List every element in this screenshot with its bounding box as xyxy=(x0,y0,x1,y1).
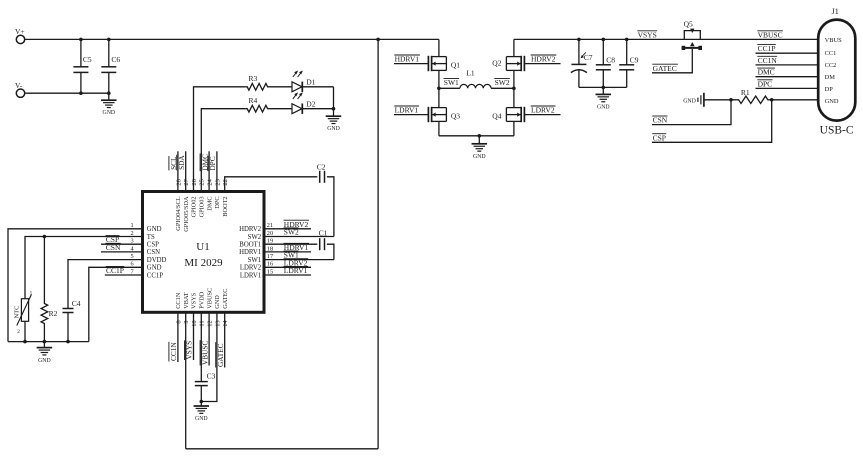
svg-text:VBUS: VBUS xyxy=(825,37,842,44)
svg-text:GND: GND xyxy=(825,98,839,105)
svg-text:SW1: SW1 xyxy=(444,78,459,87)
svg-text:26: 26 xyxy=(191,179,198,185)
svg-text:2: 2 xyxy=(130,230,133,237)
svg-text:C4: C4 xyxy=(72,299,81,308)
svg-text:20: 20 xyxy=(267,230,273,237)
svg-text:9: 9 xyxy=(183,320,190,323)
svg-text:V+: V+ xyxy=(15,27,25,36)
svg-text:U1: U1 xyxy=(196,241,209,253)
svg-text:10: 10 xyxy=(191,320,198,326)
svg-text:11: 11 xyxy=(199,320,206,326)
svg-text:SW1: SW1 xyxy=(284,251,299,260)
svg-text:V-: V- xyxy=(15,81,23,90)
svg-text:DMC: DMC xyxy=(206,196,213,210)
svg-text:DPC: DPC xyxy=(214,196,221,208)
svg-text:CC1N: CC1N xyxy=(758,56,778,65)
svg-text:21: 21 xyxy=(267,222,273,229)
svg-text:SW1: SW1 xyxy=(248,257,262,264)
svg-text:CSN: CSN xyxy=(106,243,121,252)
svg-text:CC1P: CC1P xyxy=(106,266,124,275)
svg-text:C6: C6 xyxy=(111,55,120,64)
svg-text:28: 28 xyxy=(175,179,182,185)
svg-text:LDRV1: LDRV1 xyxy=(284,266,308,275)
svg-text:HDRV2: HDRV2 xyxy=(531,55,556,64)
svg-text:GND: GND xyxy=(195,416,208,422)
svg-text:VBUSC: VBUSC xyxy=(200,341,209,365)
svg-text:GND: GND xyxy=(683,98,696,104)
svg-text:CSP: CSP xyxy=(653,133,666,142)
svg-text:12: 12 xyxy=(207,320,214,326)
svg-text:GPIO02: GPIO02 xyxy=(191,196,198,217)
svg-text:14: 14 xyxy=(222,320,229,327)
svg-text:1: 1 xyxy=(130,222,133,229)
svg-text:SDA: SDA xyxy=(177,155,186,170)
svg-text:CSP: CSP xyxy=(147,242,159,249)
svg-text:VBAT: VBAT xyxy=(183,292,190,309)
svg-text:GPIO03: GPIO03 xyxy=(199,196,206,217)
svg-text:CC2: CC2 xyxy=(825,62,837,69)
svg-text:GPIO05/SDA: GPIO05/SDA xyxy=(183,196,190,232)
svg-text:8: 8 xyxy=(175,320,182,323)
svg-text:SW2: SW2 xyxy=(284,228,299,237)
svg-text:2: 2 xyxy=(17,329,20,335)
svg-text:R3: R3 xyxy=(249,74,258,83)
svg-text:GND: GND xyxy=(147,265,162,272)
svg-text:BOOT2: BOOT2 xyxy=(222,196,229,216)
svg-text:R4: R4 xyxy=(249,96,258,105)
svg-text:VBUSC: VBUSC xyxy=(758,30,783,39)
svg-text:USB-C: USB-C xyxy=(820,125,854,137)
svg-text:LDRV1: LDRV1 xyxy=(240,272,261,279)
svg-text:CSN: CSN xyxy=(653,116,668,125)
svg-text:DM: DM xyxy=(825,74,836,81)
svg-text:SW2: SW2 xyxy=(248,234,262,241)
svg-text:GND: GND xyxy=(597,104,610,110)
svg-text:22: 22 xyxy=(222,179,229,185)
svg-text:C3: C3 xyxy=(207,372,216,381)
svg-text:SW2: SW2 xyxy=(495,78,510,87)
svg-text:MI 2029: MI 2029 xyxy=(184,257,223,269)
svg-text:Q3: Q3 xyxy=(451,111,460,120)
svg-text:1: 1 xyxy=(30,291,33,297)
svg-text:25: 25 xyxy=(199,179,206,185)
svg-text:23: 23 xyxy=(214,179,221,185)
svg-text:D1: D1 xyxy=(306,78,315,87)
svg-text:C1: C1 xyxy=(319,228,328,237)
svg-text:DMC: DMC xyxy=(758,68,775,77)
svg-text:NTC: NTC xyxy=(13,306,20,319)
svg-text:R1: R1 xyxy=(741,88,750,97)
svg-text:C8: C8 xyxy=(606,55,615,64)
svg-text:DP: DP xyxy=(825,86,834,93)
svg-text:PVDD: PVDD xyxy=(199,291,206,309)
svg-text:Q4: Q4 xyxy=(492,111,501,120)
svg-text:C9: C9 xyxy=(630,55,639,64)
svg-text:J1: J1 xyxy=(832,7,839,16)
svg-text:DPC: DPC xyxy=(208,156,217,170)
svg-text:DPC: DPC xyxy=(758,79,773,88)
svg-text:13: 13 xyxy=(214,320,221,326)
svg-text:CC1N: CC1N xyxy=(169,342,178,361)
svg-text:VSYS: VSYS xyxy=(185,341,194,360)
svg-text:GND: GND xyxy=(327,126,340,132)
svg-text:TS: TS xyxy=(147,234,155,241)
svg-text:LDRV2: LDRV2 xyxy=(240,265,262,272)
svg-text:VSYS: VSYS xyxy=(638,30,657,39)
svg-text:LDRV1: LDRV1 xyxy=(395,106,419,115)
svg-text:C2: C2 xyxy=(317,163,326,172)
svg-text:D2: D2 xyxy=(306,100,315,109)
svg-text:CC1P: CC1P xyxy=(758,44,776,53)
svg-text:L1: L1 xyxy=(466,68,475,77)
svg-text:Q5: Q5 xyxy=(684,19,693,28)
svg-text:C7: C7 xyxy=(584,53,593,62)
svg-text:GND: GND xyxy=(473,154,486,160)
svg-text:GATEC: GATEC xyxy=(653,64,677,73)
svg-text:27: 27 xyxy=(183,178,190,185)
svg-text:C5: C5 xyxy=(83,55,92,64)
svg-text:VSYS: VSYS xyxy=(191,292,198,309)
svg-text:GND: GND xyxy=(214,295,221,309)
svg-text:VBUSC: VBUSC xyxy=(206,288,213,309)
svg-text:GPIO04/SCL: GPIO04/SCL xyxy=(175,196,182,230)
svg-text:Q1: Q1 xyxy=(451,60,460,69)
svg-text:R2: R2 xyxy=(49,309,58,318)
svg-text:24: 24 xyxy=(207,178,214,185)
svg-text:BOOT1: BOOT1 xyxy=(239,242,261,249)
svg-text:GND: GND xyxy=(103,110,116,116)
svg-text:Q2: Q2 xyxy=(492,59,501,68)
svg-text:GND: GND xyxy=(38,358,51,364)
svg-text:DVDD: DVDD xyxy=(147,257,167,264)
svg-text:CSN: CSN xyxy=(147,249,160,256)
svg-text:HDRV1: HDRV1 xyxy=(239,249,261,256)
svg-text:CC1P: CC1P xyxy=(147,272,163,279)
svg-text:HDRV1: HDRV1 xyxy=(395,55,420,64)
svg-text:HDRV2: HDRV2 xyxy=(239,226,262,233)
svg-text:GATEC: GATEC xyxy=(216,343,225,367)
svg-text:GND: GND xyxy=(147,226,162,233)
svg-text:CC1N: CC1N xyxy=(175,292,182,309)
svg-text:GATEC: GATEC xyxy=(222,289,229,309)
svg-text:LDRV2: LDRV2 xyxy=(531,106,555,115)
svg-text:CC1: CC1 xyxy=(825,50,837,57)
